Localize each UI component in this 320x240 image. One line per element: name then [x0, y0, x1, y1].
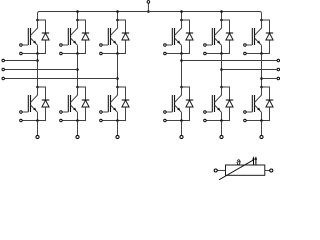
terminal: auxiliary emitter Q6T — [244, 52, 247, 55]
terminal: auxiliary emitter Q2B — [60, 119, 63, 122]
wire: gate stub Q6B — [246, 111, 252, 113]
terminal: phase X — [277, 59, 280, 62]
diode D4T — [186, 33, 193, 40]
label: theta (temperature) — [237, 160, 241, 166]
transistor Q3B (IGBT) — [108, 87, 117, 112]
terminal: auxiliary emitter Q3B — [100, 119, 103, 122]
terminal: DC- leg 2 — [76, 135, 79, 138]
wire: emitter lead Q1B — [37, 112, 39, 120]
wire: D2B cathode lead — [78, 87, 86, 100]
terminal: gate Q6T — [244, 44, 247, 47]
wire: leg 6 emitter drop to DC- terminal — [261, 121, 263, 136]
wire: gate stub Q1B — [22, 111, 28, 113]
wire: gate stub Q5T — [206, 44, 212, 46]
wire: phase riser leg 2 (top emitter to bottom collector) — [77, 54, 79, 88]
transistor Q2T (IGBT) — [68, 20, 77, 45]
wire: auxiliary emitter stub Q2T — [62, 53, 77, 55]
junction: emitter node Q3T — [116, 52, 119, 55]
wire: emitter lead Q5T — [221, 45, 223, 53]
wire: gate stub Q1T — [22, 44, 28, 46]
wire: thermistor left lead — [218, 170, 226, 172]
wire: emitter lead Q2T — [77, 45, 79, 53]
terminal: auxiliary emitter Q1T — [20, 52, 23, 55]
terminal: phase Z — [277, 77, 280, 80]
diode D5T — [226, 33, 233, 40]
transistor Q6T (IGBT) — [252, 20, 261, 45]
wire: phase riser leg 4 (top emitter to bottom collector) — [181, 54, 183, 88]
diode D6T — [266, 33, 273, 40]
wire: D3T cathode lead — [118, 20, 126, 33]
wire: auxiliary emitter stub Q6T — [246, 53, 261, 55]
terminal: DC+ — [147, 1, 150, 4]
wire: phase V output — [5, 69, 78, 71]
wire: gate stub Q5B — [206, 111, 212, 113]
wire: D5T cathode lead — [222, 20, 230, 33]
junction: emitter node Q5B — [220, 119, 223, 122]
wire: leg 3 emitter drop to DC- terminal — [117, 121, 119, 136]
terminal: phase W — [2, 77, 4, 80]
wire: phase riser leg 3 (top emitter to bottom collector) — [117, 54, 119, 88]
junction: emitter node Q4B — [180, 119, 183, 122]
terminal: gate Q4T — [164, 44, 167, 47]
junction: collector node Q4B — [180, 86, 183, 89]
terminal: gate Q1B — [20, 111, 23, 114]
terminal: auxiliary emitter Q5T — [204, 52, 207, 55]
junction: phase tap V — [76, 68, 79, 71]
junction: emitter node Q3B — [116, 119, 119, 122]
junction: collector node Q3T — [116, 19, 119, 22]
junction: DC+ bus leg 4 — [180, 10, 183, 13]
terminal: auxiliary emitter Q5B — [204, 119, 207, 122]
junction: collector node Q2B — [76, 86, 79, 89]
wire: gate stub Q4B — [166, 111, 172, 113]
wire: D6B cathode lead — [262, 87, 270, 100]
terminal: thermistor right — [270, 169, 273, 172]
wire: D6T cathode lead — [262, 20, 270, 33]
wire: leg 3 collector drop from DC+ bus — [117, 12, 119, 21]
terminal: DC- leg 6 — [260, 135, 263, 138]
junction: collector node Q5B — [220, 86, 223, 89]
wire: auxiliary emitter stub Q1B — [22, 120, 37, 122]
wire: leg 2 collector drop from DC+ bus — [77, 12, 79, 21]
wire: D1T anode lead — [38, 40, 46, 54]
terminal: phase Y — [277, 68, 280, 71]
wire: auxiliary emitter stub Q6B — [246, 120, 261, 122]
terminal: DC- leg 3 — [116, 135, 119, 138]
wire: D4T anode lead — [182, 40, 190, 54]
wire: D5B cathode lead — [222, 87, 230, 100]
wire: D5T anode lead — [222, 40, 230, 54]
terminal: gate Q5T — [204, 44, 207, 47]
wire: gate stub Q6T — [246, 44, 252, 46]
wire: emitter lead Q5B — [221, 112, 223, 120]
wire: auxiliary emitter stub Q2B — [62, 120, 77, 122]
wire: gate stub Q4T — [166, 44, 172, 46]
terminal: auxiliary emitter Q6B — [244, 119, 247, 122]
junction: DC+ bus leg 2 — [76, 10, 79, 13]
terminal: gate Q2B — [60, 111, 63, 114]
wire: D2T cathode lead — [78, 20, 86, 33]
wire: D1T cathode lead — [38, 20, 46, 33]
junction: DC+ bus leg 5 — [220, 10, 223, 13]
wire: gate stub Q3T — [102, 44, 108, 46]
wire: thermistor right lead — [265, 170, 270, 172]
wire: D6T anode lead — [262, 40, 270, 54]
junction: emitter node Q2B — [76, 119, 79, 122]
wire: auxiliary emitter stub Q1T — [22, 53, 37, 55]
junction: collector node Q6B — [260, 86, 263, 89]
diode D3T — [122, 33, 129, 40]
transistor Q4B (IGBT) — [172, 87, 181, 112]
wire: DC+ terminal lead — [147, 4, 149, 12]
wire: emitter lead Q6B — [261, 112, 263, 120]
junction: phase tap Z — [260, 77, 263, 80]
diode D5B — [226, 100, 233, 107]
junction: DC+ bus / terminal — [147, 10, 150, 13]
transistor Q1T (IGBT) — [28, 20, 37, 45]
diode D2B — [82, 100, 89, 107]
terminal: gate Q3T — [100, 44, 103, 47]
diode D4B — [186, 100, 193, 107]
transistor Q2B (IGBT) — [68, 87, 77, 112]
wire: leg 5 collector drop from DC+ bus — [221, 12, 223, 21]
wire: emitter lead Q4T — [181, 45, 183, 53]
wire: auxiliary emitter stub Q4T — [166, 53, 181, 55]
wire: phase Y output — [222, 69, 277, 71]
thermistor R_th variability stroke — [219, 160, 253, 180]
junction: emitter node Q6B — [260, 119, 263, 122]
junction: collector node Q5T — [220, 19, 223, 22]
wire: D3T anode lead — [118, 40, 126, 54]
transistor Q3T (IGBT) — [108, 20, 117, 45]
wire: D4T cathode lead — [182, 20, 190, 33]
terminal: auxiliary emitter Q4T — [164, 52, 167, 55]
terminal: gate Q1T — [20, 44, 23, 47]
wire: leg 2 emitter drop to DC- terminal — [77, 121, 79, 136]
junction: phase tap Y — [220, 68, 223, 71]
wire: emitter lead Q1T — [37, 45, 39, 53]
junction: emitter node Q2T — [76, 52, 79, 55]
junction: emitter node Q4T — [180, 52, 183, 55]
junction: emitter node Q1B — [36, 119, 39, 122]
wire: phase riser leg 6 (top emitter to bottom collector) — [261, 54, 263, 88]
wire: emitter lead Q4B — [181, 112, 183, 120]
wire: D2T anode lead — [78, 40, 86, 54]
wire: phase W output — [5, 78, 118, 80]
terminal: auxiliary emitter Q2T — [60, 52, 63, 55]
wire: D3B anode lead — [118, 107, 126, 121]
wire: gate stub Q2B — [62, 111, 68, 113]
arrows: PTC temperature-rise indicator — [252, 156, 257, 164]
wire: D4B cathode lead — [182, 87, 190, 100]
terminal: gate Q3B — [100, 111, 103, 114]
junction: collector node Q3B — [116, 86, 119, 89]
wire: phase U output — [5, 60, 38, 62]
terminal: thermistor left — [214, 169, 217, 172]
diode D2T — [82, 33, 89, 40]
junction: collector node Q2T — [76, 19, 79, 22]
wire: DC+ bus — [38, 12, 262, 21]
wire: leg 4 emitter drop to DC- terminal — [181, 121, 183, 136]
wire: gate stub Q3B — [102, 111, 108, 113]
wire: emitter lead Q2B — [77, 112, 79, 120]
terminal: gate Q5B — [204, 111, 207, 114]
wire: D3B cathode lead — [118, 87, 126, 100]
wire: leg 4 collector drop from DC+ bus — [181, 12, 183, 21]
diode D6B — [266, 100, 273, 107]
wire: phase X output — [182, 60, 277, 62]
diode D1B — [42, 100, 49, 107]
transistor Q4T (IGBT) — [172, 20, 181, 45]
wire: leg 1 emitter drop to DC- terminal — [37, 121, 39, 136]
wire: emitter lead Q6T — [261, 45, 263, 53]
wire: D1B cathode lead — [38, 87, 46, 100]
wire: auxiliary emitter stub Q3T — [102, 53, 117, 55]
junction: emitter node Q6T — [260, 52, 263, 55]
terminal: DC- leg 4 — [180, 135, 183, 138]
terminal: auxiliary emitter Q4B — [164, 119, 167, 122]
wire: emitter lead Q3B — [117, 112, 119, 120]
junction: collector node Q1T — [36, 19, 39, 22]
diode D3B — [122, 100, 129, 107]
wire: emitter lead Q3T — [117, 45, 119, 53]
wire: auxiliary emitter stub Q5B — [206, 120, 221, 122]
wire: D5B anode lead — [222, 107, 230, 121]
wire: leg 5 emitter drop to DC- terminal — [221, 121, 223, 136]
thermistor R_th body — [226, 165, 265, 175]
junction: collector node Q1B — [36, 86, 39, 89]
junction: phase tap W — [116, 77, 119, 80]
terminal: phase U — [2, 59, 4, 62]
terminal: gate Q2T — [60, 44, 63, 47]
junction: DC+ bus leg 3 — [116, 10, 119, 13]
junction: emitter node Q5T — [220, 52, 223, 55]
wire: phase riser leg 1 (top emitter to bottom collector) — [37, 54, 39, 88]
terminal: gate Q4B — [164, 111, 167, 114]
terminal: auxiliary emitter Q3T — [100, 52, 103, 55]
terminal: DC- leg 5 — [220, 135, 223, 138]
transistor Q5B (IGBT) — [212, 87, 221, 112]
wire: D1B anode lead — [38, 107, 46, 121]
wire: D6B anode lead — [262, 107, 270, 121]
junction: collector node Q4T — [180, 19, 183, 22]
wire: phase riser leg 5 (top emitter to bottom collector) — [221, 54, 223, 88]
wire: D4B anode lead — [182, 107, 190, 121]
junction: emitter node Q1T — [36, 52, 39, 55]
terminal: DC- leg 1 — [36, 135, 39, 138]
junction: phase tap X — [180, 59, 183, 62]
wire: auxiliary emitter stub Q5T — [206, 53, 221, 55]
transistor Q1B (IGBT) — [28, 87, 37, 112]
transistor Q6B (IGBT) — [252, 87, 261, 112]
terminal: phase V — [2, 68, 4, 71]
junction: phase tap U — [36, 59, 39, 62]
junction: collector node Q6T — [260, 19, 263, 22]
wire: D2B anode lead — [78, 107, 86, 121]
wire: gate stub Q2T — [62, 44, 68, 46]
terminal: auxiliary emitter Q1B — [20, 119, 23, 122]
diode D1T — [42, 33, 49, 40]
wire: auxiliary emitter stub Q3B — [102, 120, 117, 122]
wire: phase Z output — [262, 78, 277, 80]
transistor Q5T (IGBT) — [212, 20, 221, 45]
wire: auxiliary emitter stub Q4B — [166, 120, 181, 122]
terminal: gate Q6B — [244, 111, 247, 114]
